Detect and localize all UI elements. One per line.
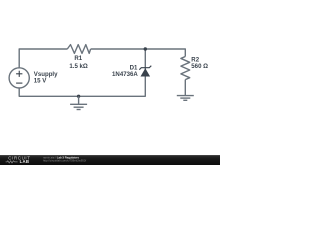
resistor R2 (181, 57, 190, 80)
svg-text:15 V: 15 V (34, 78, 47, 85)
wire: R2 bottom stub to ground (184, 80, 186, 96)
wire: left stub and top rail left segment to R1 (19, 49, 67, 68)
svg-text:R1: R1 (74, 55, 82, 62)
junction dot node at ground tap (77, 95, 80, 98)
ground (bottom rail) (70, 104, 87, 109)
voltage source Vsupply (9, 68, 29, 88)
wire: source bottom stub, bottom rail, diode branch vertical (19, 49, 145, 96)
resistor R1 (67, 45, 90, 54)
svg-text:1N4736A: 1N4736A (112, 71, 138, 78)
svg-text:LAB: LAB (20, 159, 30, 164)
svg-text:http://circuitlab.com/c/759eb2: http://circuitlab.com/c/759eb2w953/ (43, 159, 86, 163)
zener diode D1 triangle (141, 68, 151, 76)
junction dot node at diode top (144, 47, 147, 50)
svg-text:560 Ω: 560 Ω (191, 63, 208, 70)
wire: ground tap stub (78, 96, 80, 104)
ground (below R2) (177, 96, 194, 101)
zener diode D1 cathode bar with ticks (139, 66, 151, 70)
wire: top rail right segment and right branch stub to R2 (91, 49, 186, 57)
CircuitLab logo zigzag (6, 161, 18, 163)
minus sign (16, 82, 22, 84)
svg-text:1.5 kΩ: 1.5 kΩ (69, 63, 88, 70)
plus sign (16, 71, 22, 77)
